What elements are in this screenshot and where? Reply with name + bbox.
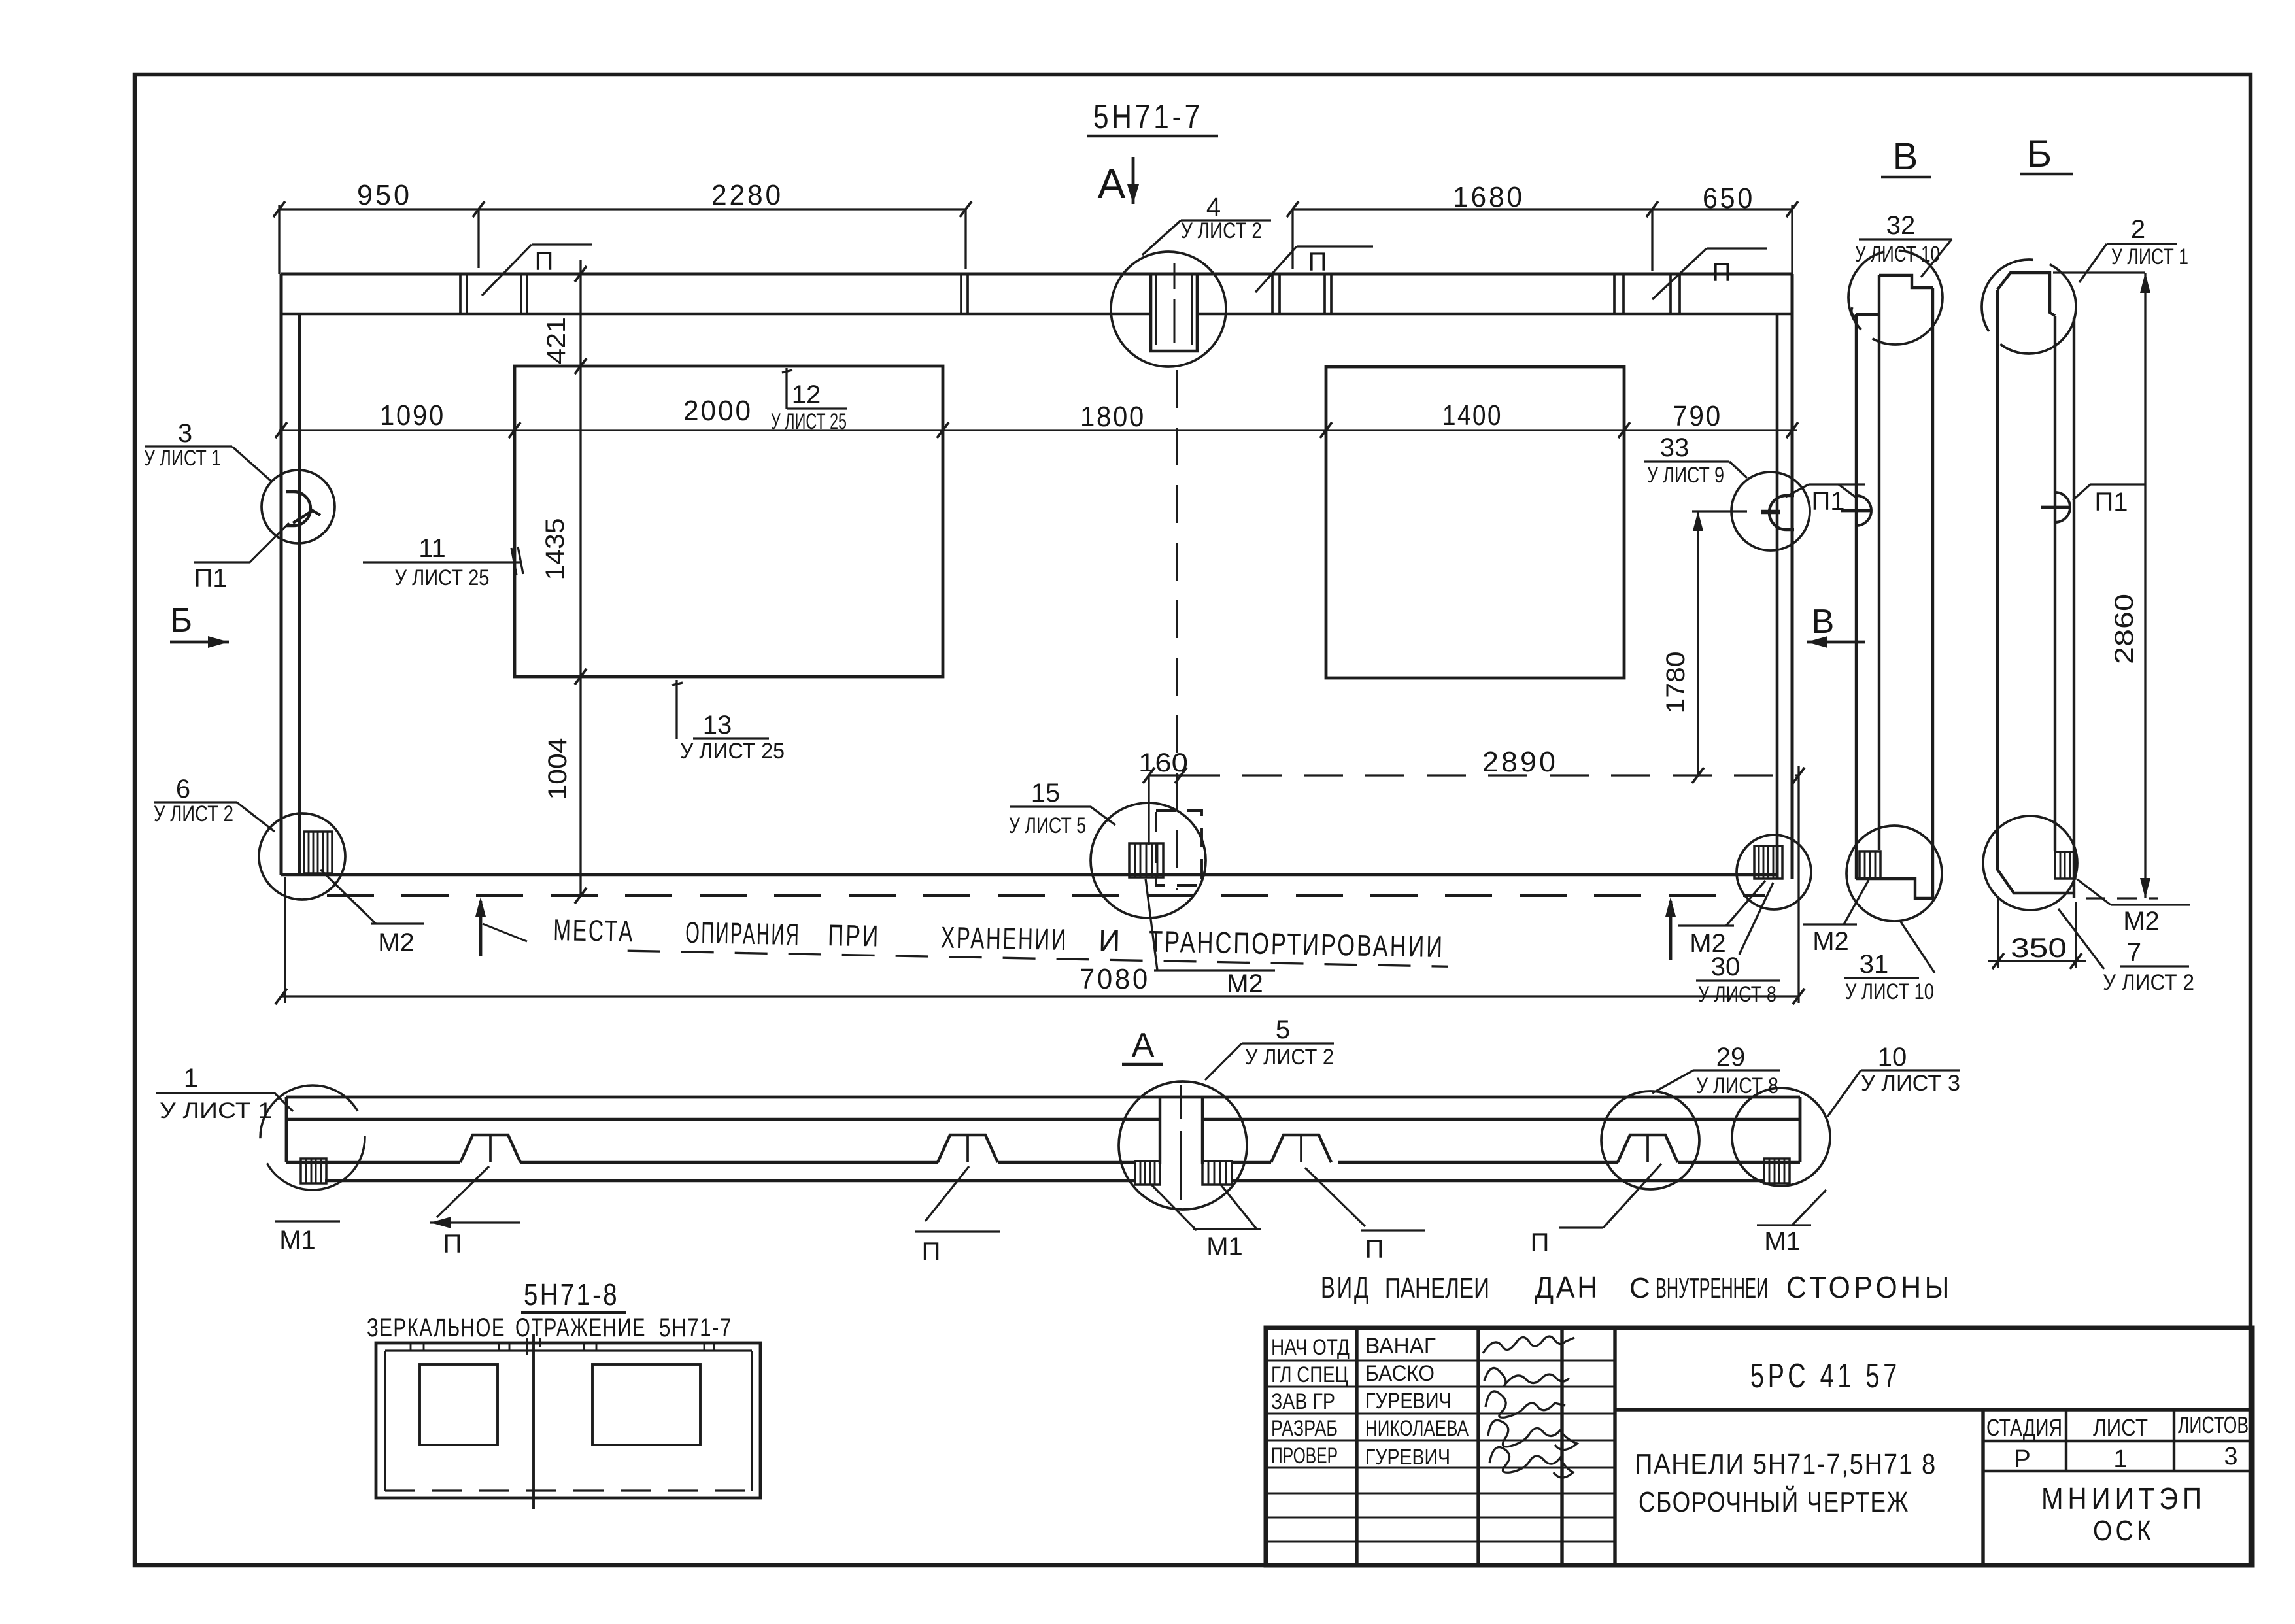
svg-text:У ЛИСТ 1: У ЛИСТ 1 [144, 446, 221, 471]
svg-text:П: П [535, 247, 554, 276]
svg-text:ГУРЕВИЧ: ГУРЕВИЧ [1365, 1389, 1452, 1413]
svg-text:ВНУТРЕННЕИ: ВНУТРЕННЕИ [1656, 1272, 1768, 1304]
svg-text:5Н71-7: 5Н71-7 [1093, 98, 1203, 136]
dim tick row1 x=1477 [960, 201, 972, 217]
joint line on flange x=806 [526, 274, 528, 314]
svg-text:ЗЕРКАЛЬНОЕ: ЗЕРКАЛЬНОЕ [367, 1313, 505, 1342]
svg-text:Р: Р [2014, 1446, 2030, 1473]
label P (A-A #3) [1361, 1229, 1425, 1231]
detail circle 29 (rib) [1601, 1091, 1699, 1189]
svg-text:У ЛИСТ 1: У ЛИСТ 1 [2111, 245, 2188, 269]
svg-text:2: 2 [2131, 215, 2145, 244]
svg-text:П: П [1531, 1228, 1550, 1257]
extension line x=1977 [1291, 209, 1293, 269]
svg-text:У ЛИСТ 3: У ЛИСТ 3 [1861, 1071, 1960, 1096]
svg-text:1780: 1780 [1661, 652, 1690, 714]
svg-text:1435: 1435 [541, 518, 569, 581]
text МЕСТА ОПИРАНИЯ ПРИ ХРАНЕНИИ И ТРАНСПОРТИРОВАНИИ [553, 913, 1449, 966]
svg-text:ПАНЕЛЕИ: ПАНЕЛЕИ [1385, 1272, 1489, 1304]
joint line on flange x=2469 [1613, 274, 1616, 314]
svg-text:421: 421 [542, 317, 571, 364]
extension line right corner [1791, 205, 1793, 274]
svg-text:790: 790 [1673, 400, 1722, 432]
svg-text:У ЛИСТ 10: У ЛИСТ 10 [1845, 979, 1934, 1004]
mirror plan right window [592, 1364, 700, 1445]
dimension row 1 line (950 / 2280) [279, 208, 966, 210]
joint line on flange x=714 [466, 274, 468, 314]
detail circle 32 (V top) partially dashed [1848, 250, 1943, 345]
extension left for 7080 [284, 877, 286, 1003]
section V: right line [1931, 288, 1934, 898]
central joint axis dash [1180, 1085, 1181, 1119]
svg-text:1680: 1680 [1453, 181, 1525, 213]
panel plan: bottom support dashed line [327, 894, 1765, 897]
signature scribbles [1483, 1336, 1574, 1353]
svg-text:ХРАНЕНИИ: ХРАНЕНИИ [941, 920, 1068, 956]
svg-text:У ЛИСТ 8: У ЛИСТ 8 [1698, 982, 1776, 1007]
svg-text:А: А [1132, 1026, 1155, 1064]
support arrow right [1669, 901, 1673, 960]
svg-text:С: С [1629, 1272, 1650, 1304]
mirror plan center top mark [527, 1338, 540, 1355]
svg-text:2890: 2890 [1482, 746, 1558, 778]
joint line on flange x=2569 [1678, 274, 1681, 314]
svg-text:7080: 7080 [1079, 963, 1150, 995]
svg-text:Б: Б [2027, 133, 2052, 175]
central joint of A-A: right wall [1201, 1097, 1204, 1164]
section A-A: right end edge [1799, 1097, 1802, 1162]
section V: top cap with notch [1856, 275, 1933, 314]
detail circle 30 (panel bottom-right anchor) [1737, 835, 1811, 909]
leader P1 to section V mark [1839, 484, 1857, 498]
dim 7080 line [281, 995, 1799, 997]
dim tick row1 x=427 [273, 201, 285, 217]
svg-text:БАСКО: БАСКО [1365, 1361, 1435, 1386]
svg-text:В: В [1812, 603, 1835, 641]
joint line on flange x=1480 [966, 274, 969, 314]
dashed box at center axis [1156, 811, 1202, 885]
detail circle 33 [1731, 472, 1810, 550]
label M2 center bottom [1154, 969, 1275, 971]
svg-text:1004: 1004 [543, 738, 572, 800]
svg-text:У ЛИСТ 9: У ЛИСТ 9 [1647, 463, 1724, 488]
svg-text:5: 5 [1276, 1015, 1290, 1044]
svg-text:ВИД: ВИД [1321, 1270, 1370, 1304]
extension line left corner [278, 205, 280, 274]
dim 160 [1149, 774, 1181, 776]
svg-text:30: 30 [1711, 953, 1741, 981]
anchor M1 center-left [1135, 1161, 1160, 1185]
dim 2860 vertical [2144, 273, 2146, 898]
anchor M2 bottom-right of panel [1754, 846, 1782, 879]
panel plan: right edge outer line [1791, 274, 1794, 879]
svg-text:3: 3 [2224, 1443, 2237, 1470]
dim tick row2 x=1442 [937, 422, 949, 438]
support arrow left [479, 901, 483, 956]
svg-text:1: 1 [2113, 1446, 2127, 1473]
svg-text:СБОРОЧНЫЙ ЧЕРТЕЖ: СБОРОЧНЫЙ ЧЕРТЕЖ [1639, 1485, 1909, 1518]
label P (A-A #4) [1559, 1226, 1603, 1228]
section A-A: web line with ribs [286, 1161, 460, 1164]
central joint vertical axis (dash) [1174, 263, 1176, 289]
svg-text:2280: 2280 [711, 179, 783, 211]
anchor M2 in section B bottom [2055, 852, 2075, 879]
svg-text:15: 15 [1031, 779, 1061, 807]
detail circle 2 (B top) partially dashed [1982, 260, 2076, 354]
panel plan: right edge inner line [1776, 314, 1779, 879]
P1 half-round mark on section V [1856, 496, 1871, 526]
detail circle 3 [262, 470, 335, 543]
svg-text:7: 7 [2127, 938, 2141, 967]
svg-text:950: 950 [357, 179, 412, 211]
signature table row lines [1266, 1360, 1615, 1362]
svg-text:5РС 41 57: 5РС 41 57 [1750, 1357, 1901, 1395]
description cell divider lines [1615, 1408, 2252, 1411]
section V: second line [1878, 275, 1880, 850]
dim tick row1 x=2527 [1646, 201, 1658, 217]
detail circle 4 (central joint) [1111, 252, 1226, 367]
label M2 (section V) [1803, 923, 1857, 925]
label M1 (left) [275, 1220, 340, 1222]
svg-text:ГУРЕВИЧ: ГУРЕВИЧ [1365, 1445, 1450, 1470]
label P (right joint) [1652, 248, 1707, 299]
svg-text:П1: П1 [1812, 487, 1845, 516]
dim tick row2 x=2028 [1320, 422, 1332, 438]
label P (A-A #2) [915, 1230, 1000, 1232]
joint line on flange x=704 [459, 274, 462, 314]
panel plan: left edge outer line [280, 274, 283, 875]
detail circle 15 (center anchor) [1091, 803, 1206, 918]
svg-text:350: 350 [2011, 932, 2067, 963]
svg-text:П: П [443, 1230, 462, 1259]
dim tick row2 x=430 [275, 422, 287, 438]
svg-text:ВАНАГ: ВАНАГ [1365, 1334, 1436, 1359]
svg-text:И: И [1098, 923, 1121, 958]
anchor M1 right end [1764, 1159, 1790, 1183]
section B: left line [1996, 290, 1999, 870]
svg-text:ПАНЕЛИ 5Н71-7,5Н71 8: ПАНЕЛИ 5Н71-7,5Н71 8 [1635, 1448, 1937, 1480]
svg-text:У ЛИСТ 2: У ЛИСТ 2 [1181, 218, 1262, 243]
svg-text:1090: 1090 [380, 399, 445, 431]
svg-text:НИКОЛАЕВА: НИКОЛАЕВА [1365, 1416, 1469, 1441]
panel plan: bottom edge solid line [281, 873, 1777, 877]
extension line x=732 [477, 209, 479, 268]
label P1 (section B) [2090, 483, 2145, 485]
svg-text:5Н71-8: 5Н71-8 [524, 1277, 619, 1311]
svg-text:М2: М2 [1227, 970, 1263, 998]
label P (mid-right joint) [1255, 246, 1297, 292]
svg-text:4: 4 [1206, 193, 1221, 222]
svg-text:ГЛ СПЕЦ: ГЛ СПЕЦ [1271, 1362, 1348, 1387]
label P (left joint) [482, 245, 532, 296]
section A-A: bottom line [325, 1179, 1135, 1182]
svg-text:11: 11 [418, 534, 446, 563]
joint line on flange x=2026 [1323, 274, 1326, 314]
svg-text:У ЛИСТ 8: У ЛИСТ 8 [1696, 1074, 1778, 1098]
svg-text:ДАН: ДАН [1535, 1270, 1600, 1304]
svg-text:1400: 1400 [1442, 399, 1503, 431]
svg-text:СТАДИЯ: СТАДИЯ [1986, 1414, 2062, 1441]
joint line on flange x=1946 [1271, 274, 1274, 314]
svg-text:П1: П1 [2095, 488, 2128, 516]
svg-text:РАЗРАБ: РАЗРАБ [1271, 1416, 1338, 1441]
svg-text:У ЛИСТ 25: У ЛИСТ 25 [395, 566, 490, 590]
svg-text:ПРОВЕР: ПРОВЕР [1271, 1444, 1338, 1468]
svg-text:У ЛИСТ 2: У ЛИСТ 2 [154, 802, 233, 826]
dim tick row2 x=787 [509, 422, 520, 438]
svg-text:12: 12 [792, 381, 821, 409]
dim tick row1 x=732 [473, 201, 484, 217]
detail circle 31 (V bottom) [1846, 826, 1942, 921]
label P (A-A #1) [430, 1221, 520, 1223]
joint line on flange x=2555 [1669, 274, 1672, 314]
anchor M1 left end [301, 1159, 326, 1183]
signature table column lines [1355, 1328, 1358, 1565]
panel 5N71-7 plan: top flange outer edge [281, 273, 1792, 276]
detail circle 1 (A-A left end) [260, 1085, 365, 1190]
svg-text:У ЛИСТ 1: У ЛИСТ 1 [160, 1098, 272, 1123]
svg-text:В: В [1893, 135, 1918, 178]
label P1 (right) [1809, 483, 1865, 485]
svg-text:650: 650 [1703, 182, 1755, 214]
svg-text:П: П [1308, 248, 1327, 277]
dimension row 2 line [279, 429, 1797, 431]
svg-text:ТРАНСПОРТИРОВАНИИ: ТРАНСПОРТИРОВАНИИ [1149, 924, 1445, 964]
section V: bottom cap with step [1856, 879, 1933, 898]
svg-text:ЛИСТ: ЛИСТ [2093, 1414, 2148, 1441]
svg-text:М2: М2 [2123, 907, 2160, 936]
label M1 (center) [1193, 1228, 1261, 1230]
section A-A: left end edge [285, 1097, 288, 1162]
joint line on flange x=2483 [1622, 274, 1625, 314]
dimension row 1 line (1680 / 650) [1293, 208, 1792, 210]
joint line on flange x=1957 [1278, 274, 1281, 314]
label P1 (left) [194, 561, 250, 563]
svg-text:У ЛИСТ 5: У ЛИСТ 5 [1009, 813, 1086, 838]
svg-text:НАЧ ОТД: НАЧ ОТД [1271, 1335, 1350, 1360]
anchor M1 center-right [1202, 1161, 1232, 1185]
svg-text:П: П [1712, 258, 1731, 287]
dim tick row2 x=2484 [1618, 422, 1630, 438]
rib P at x=750 [460, 1135, 520, 1162]
dim 350 [1997, 897, 1999, 968]
svg-text:А: А [1098, 160, 1126, 207]
joint line on flange x=797 [520, 274, 522, 314]
rib P at x=1480 [938, 1135, 998, 1162]
detail circle 5 (A-A center joint) [1119, 1081, 1247, 1210]
svg-text:У ЛИСТ 25: У ЛИСТ 25 [771, 409, 847, 434]
label M2 bottom-left [371, 922, 424, 924]
mirror plan top joint ticks [410, 1343, 412, 1351]
svg-text:33: 33 [1660, 433, 1690, 462]
lifting hook P1 right edge [1769, 496, 1794, 530]
anchor M2 bottom-left [304, 832, 332, 873]
section V: small hook top-left [1852, 307, 1856, 318]
svg-text:6: 6 [176, 775, 190, 804]
right window opening 1400 [1326, 367, 1624, 678]
label M2 (panel right) [1678, 924, 1734, 926]
svg-text:П: П [922, 1238, 941, 1266]
svg-text:П1: П1 [194, 564, 228, 593]
svg-text:ЛИСТОВ: ЛИСТОВ [2178, 1412, 2249, 1438]
extension line x=1477 [964, 209, 966, 269]
long dashed center axis of plan [1176, 370, 1178, 890]
section A-A: top line [286, 1096, 1800, 1099]
svg-text:М2: М2 [378, 928, 415, 957]
svg-text:29: 29 [1716, 1043, 1746, 1072]
mirror plan inner rect [385, 1351, 752, 1491]
label M2 (section B) [2111, 904, 2190, 905]
svg-text:5Н71-7: 5Н71-7 [659, 1313, 732, 1342]
rib P at x=1990 [1271, 1135, 1331, 1162]
svg-text:СТОРОНЫ: СТОРОНЫ [1786, 1270, 1953, 1304]
mirror plan center line [532, 1334, 535, 1509]
svg-text:МНИИТЭП: МНИИТЭП [2041, 1481, 2206, 1515]
svg-text:1: 1 [184, 1064, 198, 1092]
svg-text:2860: 2860 [2110, 594, 2139, 664]
svg-text:31: 31 [1860, 950, 1889, 979]
vertical dim chain line x=888 [579, 260, 581, 896]
dim tick row2 x=2741 [1786, 422, 1798, 438]
P1 half-round mark on section B [2055, 492, 2070, 522]
svg-text:П: П [1365, 1235, 1384, 1264]
svg-text:Б: Б [170, 601, 192, 639]
anchor M2 center [1129, 843, 1163, 877]
svg-text:ОПИРАНИЯ: ОПИРАНИЯ [685, 915, 801, 951]
svg-text:МЕСТА: МЕСТА [553, 913, 635, 948]
detail circle 6 (bottom-left anchor) [259, 813, 345, 900]
left window opening 2000x1435 [515, 366, 943, 677]
svg-text:М1: М1 [1764, 1227, 1801, 1256]
section B: right inner line [2054, 316, 2056, 851]
dim 2890 (dashed line) [1181, 774, 1799, 776]
lifting hook P1 in circle 3 [286, 492, 311, 526]
svg-text:М2: М2 [1812, 927, 1849, 956]
svg-text:32: 32 [1886, 211, 1916, 240]
section B: right outer line [2073, 318, 2075, 898]
central joint of A-A: left wall [1159, 1097, 1161, 1164]
svg-text:2000: 2000 [683, 395, 753, 427]
svg-text:13: 13 [703, 711, 732, 739]
dim tick row1 x=2741 [1786, 201, 1798, 217]
svg-text:3: 3 [178, 419, 192, 448]
section B: bottom foot [1997, 870, 2074, 893]
section V: left inner line [1855, 314, 1858, 879]
svg-text:160: 160 [1138, 749, 1188, 777]
extension right for 7080/2890 [1797, 766, 1799, 1003]
section A-A: second line [286, 1118, 1160, 1121]
title block outer frame [1266, 1328, 2252, 1565]
svg-text:М1: М1 [1206, 1232, 1243, 1261]
svg-text:У ЛИСТ 25: У ЛИСТ 25 [680, 739, 785, 764]
anchor M2 in section V bottom [1860, 851, 1880, 879]
dim 1780 vertical [1697, 511, 1699, 775]
detail circle 10 (A-A right end) [1732, 1088, 1830, 1186]
svg-text:10: 10 [1878, 1043, 1907, 1072]
leader anchor to M2 label center [1146, 879, 1157, 970]
svg-text:ОТРАЖЕНИЕ: ОТРАЖЕНИЕ [515, 1313, 646, 1342]
svg-text:ОСК: ОСК [2093, 1515, 2154, 1547]
svg-text:У ЛИСТ 2: У ЛИСТ 2 [1245, 1045, 1334, 1070]
svg-text:ПРИ: ПРИ [828, 918, 881, 953]
mirror plan outer rect [376, 1343, 760, 1498]
svg-text:ЗАВ ГР: ЗАВ ГР [1271, 1389, 1335, 1414]
joint line on flange x=1470 [960, 274, 962, 314]
label M1 (right) [1757, 1224, 1811, 1226]
panel plan: top flange inner edge [281, 313, 1149, 316]
mirror plan left window [420, 1364, 498, 1445]
dim tick row1 x=1977 [1287, 201, 1299, 217]
panel plan: left edge inner line [298, 314, 301, 875]
detail circle B bottom [1983, 816, 2077, 910]
joint line on flange x=2036 [1330, 274, 1333, 314]
section B: top cap [1997, 273, 2055, 316]
svg-text:М1: М1 [279, 1226, 316, 1255]
svg-text:У ЛИСТ 2: У ЛИСТ 2 [2103, 970, 2194, 995]
extension line x=2527 [1651, 209, 1653, 271]
rib P at x=2520 [1618, 1135, 1678, 1162]
svg-text:1800: 1800 [1080, 401, 1146, 433]
central joint slot in top flange [1151, 274, 1197, 351]
